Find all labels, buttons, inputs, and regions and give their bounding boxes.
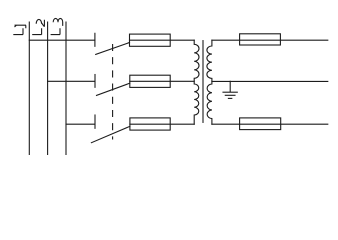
label L2 (rotated) <box>32 28 41 34</box>
switch S1 blade row2 <box>97 83 130 95</box>
wire row1 through fuse to transformer <box>130 39 195 41</box>
wire secondary top to output <box>212 39 328 41</box>
ground bar 3 <box>228 97 231 99</box>
switch S1 fixed contact row3 <box>94 115 96 128</box>
wire secondary bottom to output <box>212 123 328 125</box>
fuse F5 bottom right <box>240 118 281 130</box>
switch S1 linkage (dashed) <box>112 45 114 140</box>
wire row3 branch L3 to switch <box>66 123 95 125</box>
bus L1 <box>28 22 30 155</box>
wire row2 through fuse to transformer <box>130 80 194 82</box>
wire row2 branch L2 to switch <box>48 80 95 82</box>
transformer T1 primary winding <box>194 40 199 124</box>
wire row1 branch L1 to switch <box>29 39 95 41</box>
switch S1 blade row1 <box>96 43 130 55</box>
wire row3 through fuse to transformer <box>130 123 194 125</box>
fuse F2 row2 <box>130 75 170 87</box>
ground stem <box>229 81 231 92</box>
ground bar 1 <box>223 91 237 93</box>
wire secondary mid (neutral) to output <box>212 80 328 82</box>
ground bar 2 <box>225 94 235 96</box>
bus L3 <box>65 22 67 155</box>
fuse F3 row3 <box>130 118 170 130</box>
switch S1 blade row3 <box>91 126 129 142</box>
switch S1 fixed contact row1 <box>94 33 96 46</box>
label L1 (rotated) <box>13 28 23 34</box>
bus L2 <box>47 22 49 155</box>
label L3 (rotated) <box>51 28 60 34</box>
switch S1 fixed contact row2 <box>94 75 96 88</box>
transformer T1 core <box>202 41 204 123</box>
transformer T1 secondary winding <box>207 40 212 124</box>
fuse F4 top right <box>240 34 281 45</box>
fuse F1 row1 <box>130 34 171 46</box>
